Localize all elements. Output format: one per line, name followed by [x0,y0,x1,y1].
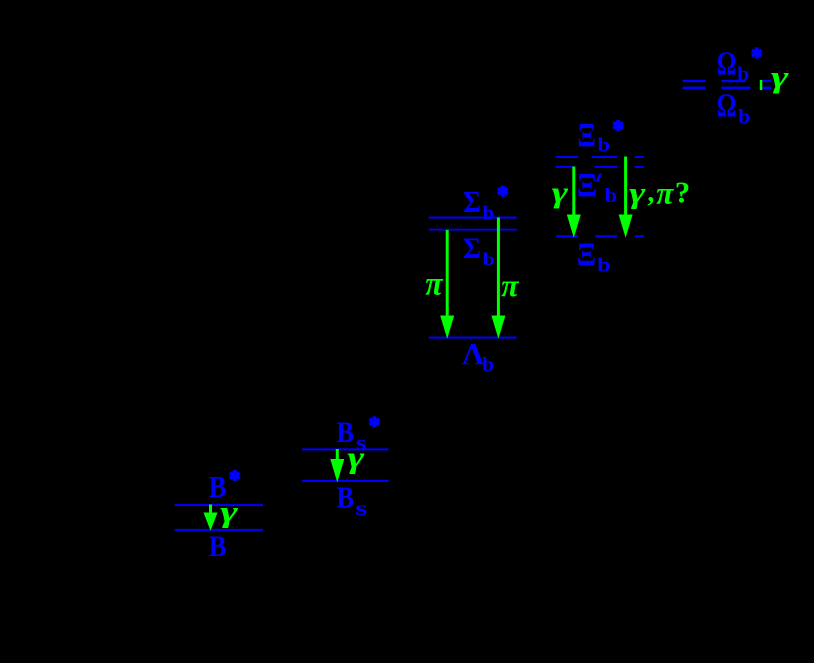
svg-text:γ: γ [552,176,569,209]
svg-text:π: π [501,267,520,303]
svg-text:B: B [336,480,354,515]
svg-text:π: π [425,266,444,303]
svg-text:Σ: Σ [463,232,481,265]
svg-text:b: b [483,202,494,224]
svg-text:Ξ: Ξ [577,237,596,273]
svg-text:γ: γ [220,495,239,528]
svg-text:B: B [209,530,227,563]
svg-text:Ω: Ω [717,88,737,125]
svg-text:γ: γ [629,176,646,209]
svg-text:,: , [647,177,654,208]
svg-text:s: s [355,496,367,520]
svg-text:Σ: Σ [463,184,481,219]
svg-text:γ: γ [771,59,789,94]
svg-text:b: b [738,106,750,128]
svg-text:Ξ: Ξ [577,167,597,204]
svg-text:b: b [482,354,494,376]
svg-text:b: b [483,249,495,269]
svg-text:b: b [605,185,617,207]
svg-text:γ: γ [347,439,364,474]
svg-text:b: b [598,135,611,156]
svg-text:Ω: Ω [717,45,737,82]
svg-text:b: b [597,255,610,277]
svg-text:?: ? [675,175,691,210]
svg-text:b: b [737,64,749,86]
svg-text:Ξ: Ξ [578,117,596,154]
svg-text:π: π [656,174,675,210]
